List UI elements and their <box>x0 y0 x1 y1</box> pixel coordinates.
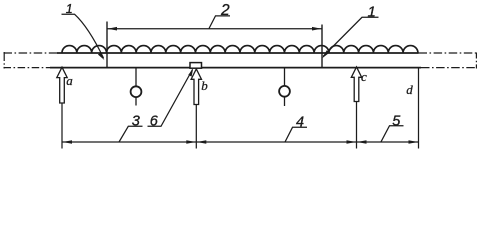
svg-text:2: 2 <box>220 2 230 19</box>
support hanger 2 <box>284 69 286 86</box>
svg-text:4: 4 <box>296 115 304 131</box>
svg-text:1: 1 <box>368 4 376 21</box>
heater coil turns (scallops) <box>62 46 418 53</box>
dim arrowheads at c <box>347 140 357 144</box>
pipe left break: top dash-dot <box>4 52 59 54</box>
dimension line 2 <box>107 28 322 30</box>
pipe left break: bottom dash-dot <box>4 67 52 69</box>
pipe bottom line (solid) <box>50 67 421 69</box>
leader of label 1 left <box>62 14 104 58</box>
support hanger 1 <box>135 69 137 87</box>
pipe right break: top dash-dot <box>419 52 478 54</box>
svg-text:a: a <box>66 73 73 88</box>
svg-text:3: 3 <box>132 114 140 130</box>
dim 2 right arrowhead <box>312 27 322 31</box>
air flow hollow arrow c <box>351 67 361 102</box>
label 2 shelf and slant <box>209 16 230 29</box>
dim arrowhead right at d <box>409 140 419 144</box>
extension line a (x=62) <box>61 100 63 149</box>
label 6 shelf and leader <box>148 70 193 127</box>
svg-text:5: 5 <box>392 114 401 130</box>
support circle 2 <box>279 86 290 97</box>
label 3 shelf and slant <box>119 126 143 142</box>
support tail 2 <box>284 97 286 106</box>
support circle 1 <box>131 86 142 97</box>
extension line b (x=196.3) <box>195 102 197 149</box>
svg-text:6: 6 <box>150 114 159 130</box>
heater section boundary / extension line right (x=322) <box>321 25 323 68</box>
air flow hollow arrow a <box>57 67 67 103</box>
pipe left break: end vertical <box>3 52 5 69</box>
heater section boundary / extension line left (x=107) <box>106 22 108 68</box>
pipe top line (solid) <box>57 52 419 54</box>
dim arrowhead left at a <box>63 140 73 144</box>
dim arrowheads at b <box>186 140 196 144</box>
label 5 shelf and slant <box>381 126 404 142</box>
leader 1 left arrowhead <box>98 52 104 60</box>
pipe right break: end vertical <box>475 53 477 69</box>
bottom dimension line 3-4-5 <box>62 141 419 143</box>
leader 6 arrowhead <box>188 68 193 76</box>
pipe right break: bottom dash-dot <box>421 67 477 69</box>
leader 1 right arrowhead <box>322 50 329 58</box>
svg-text:c: c <box>361 69 367 84</box>
label 4 shelf and slant <box>285 127 307 142</box>
support tail 1 <box>135 97 137 105</box>
svg-text:b: b <box>201 78 208 93</box>
svg-text:d: d <box>406 82 413 97</box>
extension line d (x=418.5) <box>418 69 420 149</box>
extension line c (x=356.5) <box>356 100 358 149</box>
leader of label 1 right <box>323 17 379 56</box>
air flow hollow arrow b <box>191 69 201 105</box>
svg-text:1: 1 <box>66 2 73 16</box>
dim 2 left arrowhead <box>108 27 118 31</box>
thermocouple pocket 6 (small rectangle) <box>190 63 202 69</box>
